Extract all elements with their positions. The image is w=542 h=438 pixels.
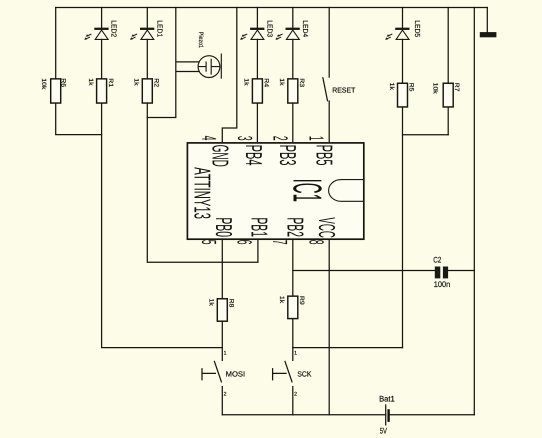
svg-text:LED4: LED4 <box>301 20 310 37</box>
svg-text:10k: 10k <box>432 83 439 95</box>
svg-text:R2: R2 <box>153 78 160 87</box>
svg-text:1k: 1k <box>278 78 285 86</box>
svg-text:IC1: IC1 <box>284 179 330 202</box>
svg-text:PB3: PB3 <box>275 145 301 166</box>
svg-text:1k: 1k <box>388 83 395 91</box>
svg-text:LED3: LED3 <box>266 20 275 37</box>
svg-text:SCK: SCK <box>297 369 311 378</box>
svg-text:7: 7 <box>268 240 291 245</box>
svg-text:1k: 1k <box>87 78 94 86</box>
svg-text:PB2: PB2 <box>282 217 308 237</box>
svg-text:PB0: PB0 <box>211 217 237 237</box>
svg-text:R7: R7 <box>453 83 460 92</box>
svg-text:VCC: VCC <box>314 217 340 237</box>
svg-text:R3: R3 <box>298 78 305 87</box>
svg-text:GND: GND <box>207 145 233 167</box>
svg-text:R9: R9 <box>298 296 305 305</box>
svg-text:R5: R5 <box>408 83 415 92</box>
svg-text:1: 1 <box>305 136 328 141</box>
svg-text:R1: R1 <box>107 78 114 87</box>
svg-text:1: 1 <box>294 351 297 357</box>
svg-text:R8: R8 <box>228 299 235 308</box>
svg-text:LED5: LED5 <box>413 20 422 37</box>
svg-text:5: 5 <box>197 240 220 245</box>
svg-text:2: 2 <box>224 391 227 397</box>
svg-text:4: 4 <box>197 136 220 141</box>
svg-text:1k: 1k <box>133 78 140 86</box>
svg-text:100n: 100n <box>434 280 450 289</box>
svg-text:6: 6 <box>233 240 256 245</box>
svg-text:3: 3 <box>233 136 256 141</box>
svg-text:R6: R6 <box>60 78 67 87</box>
svg-text:1: 1 <box>224 351 227 357</box>
svg-text:2: 2 <box>294 391 297 397</box>
svg-text:5V: 5V <box>380 426 388 435</box>
svg-text:R4: R4 <box>263 78 270 87</box>
svg-text:1k: 1k <box>278 296 285 304</box>
svg-text:ATTINY13: ATTINY13 <box>190 167 216 219</box>
svg-text:Piezo1: Piezo1 <box>197 32 204 49</box>
svg-text:1k: 1k <box>207 299 214 307</box>
svg-text:PB4: PB4 <box>241 145 267 166</box>
svg-text:10k: 10k <box>40 78 47 90</box>
svg-text:C2: C2 <box>433 256 441 265</box>
svg-text:MOSI: MOSI <box>226 369 246 378</box>
svg-text:Bat1: Bat1 <box>379 394 395 403</box>
svg-text:LED2: LED2 <box>110 20 119 37</box>
svg-text:LED1: LED1 <box>155 20 164 37</box>
svg-text:PB5: PB5 <box>311 145 337 166</box>
svg-text:1k: 1k <box>243 78 250 86</box>
svg-text:8: 8 <box>304 240 327 245</box>
svg-text:PB1: PB1 <box>247 217 273 237</box>
svg-text:RESET: RESET <box>332 85 356 94</box>
svg-text:2: 2 <box>268 136 291 141</box>
